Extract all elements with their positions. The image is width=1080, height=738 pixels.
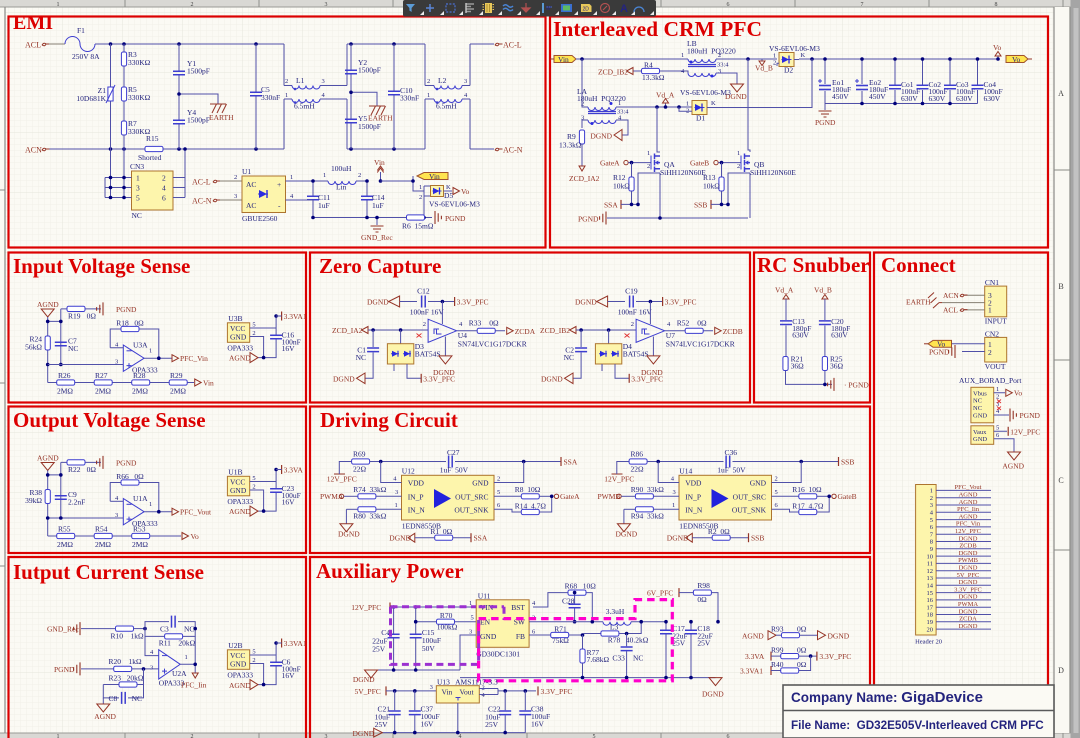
resistor R14 <box>494 496 552 514</box>
svg-text:R86: R86 <box>631 450 644 459</box>
svg-text:3: 3 <box>395 489 398 496</box>
svg-text:C12: C12 <box>417 287 430 296</box>
toolbar icon sheet symbol <box>581 4 592 12</box>
junction <box>630 203 634 207</box>
wire to earth <box>179 94 218 104</box>
section border Interleaved CRM PFC <box>550 17 1048 248</box>
svg-text:330KΩ: 330KΩ <box>128 58 151 67</box>
svg-text:5: 5 <box>471 615 474 622</box>
svg-text:6: 6 <box>727 734 730 738</box>
svg-text:0Ω: 0Ω <box>134 319 144 328</box>
svg-text:1uF 50V: 1uF 50V <box>717 466 746 475</box>
port PWMA <box>320 492 358 501</box>
wire to flag <box>381 176 425 196</box>
capacitor C36 <box>717 448 746 475</box>
svg-text:Vd_A: Vd_A <box>656 91 675 100</box>
svg-text:AC-N: AC-N <box>503 146 523 155</box>
power 3.3VA <box>276 465 303 475</box>
port PFC_Vout <box>172 508 212 517</box>
svg-text:5: 5 <box>252 649 255 656</box>
power 6V_PFC <box>647 588 693 598</box>
resistor R25 <box>822 355 843 385</box>
ground PGND <box>435 211 466 224</box>
svg-text:18: 18 <box>927 612 934 619</box>
capacitor C11 <box>307 181 330 218</box>
svg-text:C28: C28 <box>562 597 575 606</box>
resistor R6 <box>402 215 434 231</box>
svg-text:Vin: Vin <box>203 379 214 388</box>
ground PGND caps <box>815 104 836 128</box>
port ZCDA <box>507 327 536 336</box>
svg-text:9: 9 <box>930 546 933 553</box>
svg-text:OPA333: OPA333 <box>227 497 253 506</box>
capacitor Co4 <box>972 59 1003 104</box>
svg-text:R20 1kΩ: R20 1kΩ <box>109 657 143 666</box>
svg-text:ZCDA: ZCDA <box>515 327 536 336</box>
svg-text:L3: L3 <box>610 623 619 632</box>
svg-text:50V: 50V <box>422 644 436 653</box>
connector CN3 <box>130 162 173 220</box>
svg-text:0Ω: 0Ω <box>697 318 707 327</box>
svg-text:R98: R98 <box>697 581 710 590</box>
capacitor Co3 <box>944 59 975 104</box>
junction <box>109 176 113 180</box>
svg-text:GBUE2560: GBUE2560 <box>242 214 278 223</box>
svg-text:2: 2 <box>988 348 992 357</box>
svg-text:DGND: DGND <box>338 530 360 539</box>
toolbar icon arc <box>634 7 644 12</box>
svg-text:3.3V_PFC: 3.3V_PFC <box>665 298 697 307</box>
svg-text:GND_Rec: GND_Rec <box>361 233 393 242</box>
magenta dashed highlight pink <box>479 600 673 681</box>
capacitor C17 <box>660 622 688 678</box>
svg-text:10: 10 <box>927 553 934 560</box>
wires CN3 left <box>105 149 132 199</box>
svg-text:2.2nF: 2.2nF <box>68 498 85 507</box>
svg-text:C: C <box>1058 476 1063 485</box>
svg-text:NC: NC <box>68 344 78 353</box>
wire <box>444 190 453 192</box>
resistor R70 <box>416 611 477 632</box>
svg-text:630V: 630V <box>831 330 848 339</box>
svg-text:R52: R52 <box>677 318 690 327</box>
mosfet QB <box>724 150 796 177</box>
svg-text:PWMA: PWMA <box>958 601 979 608</box>
svg-text:6.5mH: 6.5mH <box>294 102 315 111</box>
svg-text:C3: C3 <box>160 625 169 634</box>
svg-text:1: 1 <box>136 174 140 183</box>
port ZCD_IB2 <box>540 326 636 335</box>
svg-text:1: 1 <box>149 348 152 355</box>
svg-text:25V: 25V <box>375 720 389 729</box>
svg-text:K: K <box>711 100 716 107</box>
junction <box>860 57 864 61</box>
svg-text:U2B: U2B <box>228 641 242 650</box>
divider row R55 R54 R53 <box>48 525 181 550</box>
capacitor C3 <box>145 616 195 634</box>
svg-text:630V: 630V <box>901 94 918 103</box>
wire <box>772 462 802 483</box>
power Vo arrow <box>993 43 1001 59</box>
junction <box>921 57 925 61</box>
power Vd_A <box>775 286 794 321</box>
svg-text:Vo: Vo <box>1012 55 1020 64</box>
left sheet frame <box>0 7 5 733</box>
svg-text:GND: GND <box>230 333 247 342</box>
wire AGND branch <box>48 309 61 365</box>
resistor R17 <box>772 496 830 514</box>
ground DGND aux right <box>702 678 724 699</box>
power 3.3VA1 <box>276 312 307 322</box>
ground AGND sideways <box>229 353 258 363</box>
capacitor Y2 <box>345 44 381 92</box>
capacitor C23 <box>264 470 301 512</box>
svg-text:R27: R27 <box>95 371 108 380</box>
capacitor C9 <box>55 490 85 507</box>
svg-text:DGND: DGND <box>353 675 375 684</box>
svg-text:ACN: ACN <box>25 146 42 155</box>
svg-text:PFC_Vin: PFC_Vin <box>956 521 981 528</box>
svg-text:1: 1 <box>185 654 188 661</box>
svg-text:Header 20: Header 20 <box>915 639 942 646</box>
svg-text:DGND: DGND <box>959 579 978 586</box>
diode D5 <box>419 184 480 209</box>
svg-text:5: 5 <box>136 194 140 203</box>
svg-text:2: 2 <box>191 2 194 8</box>
svg-text:1: 1 <box>395 502 398 509</box>
ground AGND <box>94 698 116 721</box>
port GateB <box>832 492 857 501</box>
svg-text:AGND: AGND <box>742 631 764 640</box>
port ACN <box>25 146 50 155</box>
svg-text:Interleaved CRM PFC: Interleaved CRM PFC <box>553 17 762 41</box>
svg-text:25V: 25V <box>485 720 499 729</box>
svg-text:AGND: AGND <box>94 712 116 721</box>
svg-text:1: 1 <box>773 53 776 60</box>
wire plus input row <box>48 517 124 519</box>
junction <box>581 633 585 637</box>
svg-text:16V: 16V <box>421 720 435 729</box>
svg-text:3.3VA1: 3.3VA1 <box>284 312 307 321</box>
resistor R94 <box>624 502 679 521</box>
svg-text:Driving Circuit: Driving Circuit <box>320 408 458 432</box>
svg-text:OUT_SRC: OUT_SRC <box>733 492 766 501</box>
svg-text:OUT_SNK: OUT_SNK <box>732 505 767 514</box>
svg-text:DGND: DGND <box>575 298 597 307</box>
port PWMB <box>598 492 636 501</box>
svg-text:2: 2 <box>581 101 584 108</box>
main rail <box>576 58 998 60</box>
junction <box>827 495 831 499</box>
capacitor Eo2 <box>855 59 888 104</box>
port GateA <box>554 492 580 501</box>
svg-text:2: 2 <box>234 174 237 181</box>
resistor R10 <box>111 626 146 641</box>
svg-text:SN74LVC1G17DCKR: SN74LVC1G17DCKR <box>666 340 735 349</box>
svg-text:19: 19 <box>927 619 934 626</box>
capacitor C18 <box>685 622 713 678</box>
capacitor C33 <box>612 634 643 678</box>
svg-text:3: 3 <box>322 78 325 85</box>
ground DGND u4 <box>433 337 455 377</box>
power 5V_PFC <box>355 686 437 695</box>
resistor R80 <box>346 502 401 521</box>
power 12V_PFC aux <box>1008 427 1040 437</box>
junction <box>860 102 864 106</box>
svg-text:R68 10Ω: R68 10Ω <box>565 581 597 590</box>
svg-text:450V: 450V <box>869 92 886 101</box>
svg-text:Output Voltage Sense: Output Voltage Sense <box>13 408 206 432</box>
svg-text:ZCDA: ZCDA <box>959 616 977 623</box>
junction <box>550 495 554 499</box>
svg-text:2: 2 <box>191 734 194 738</box>
section border Output Voltage Sense <box>9 407 307 554</box>
title block <box>783 685 1054 738</box>
svg-text:AGND: AGND <box>1002 462 1024 471</box>
wire <box>381 462 402 483</box>
svg-text:Shorted: Shorted <box>138 153 162 162</box>
svg-text:NC: NC <box>564 353 574 362</box>
svg-text:DGND: DGND <box>367 298 389 307</box>
svg-text:100nF 16V: 100nF 16V <box>618 308 653 317</box>
svg-text:2: 2 <box>285 78 288 85</box>
svg-text:GND: GND <box>230 660 247 669</box>
ground DGND c19 <box>575 296 625 307</box>
svg-text:Zero Capture: Zero Capture <box>319 254 441 278</box>
svg-text:10D681K: 10D681K <box>76 94 106 103</box>
resistor R24 <box>25 335 50 352</box>
svg-text:R74 33kΩ: R74 33kΩ <box>353 485 387 494</box>
svg-text:R4: R4 <box>644 61 653 70</box>
svg-text:2: 2 <box>773 60 776 67</box>
ground DGND driver <box>616 509 638 538</box>
resistor R52 <box>665 318 713 333</box>
svg-text:10kΩ: 10kΩ <box>613 182 630 191</box>
op-amp U3A <box>48 341 158 375</box>
svg-text:7.68kΩ: 7.68kΩ <box>587 655 610 664</box>
wire LA pin4 to DGND <box>616 120 628 135</box>
svg-text:R69: R69 <box>353 450 366 459</box>
ground DGND driver <box>338 509 360 538</box>
junction <box>689 620 693 624</box>
wire QA source <box>638 173 660 218</box>
bridge rectifier U1 <box>242 167 286 223</box>
svg-text:VDD: VDD <box>685 479 702 488</box>
svg-text:AGND: AGND <box>959 513 978 520</box>
svg-text:17: 17 <box>927 604 934 611</box>
junction <box>809 654 813 658</box>
svg-text:C36: C36 <box>725 448 738 457</box>
svg-text:12V_PFC: 12V_PFC <box>351 603 381 612</box>
ground PGND rail <box>578 212 748 225</box>
svg-text:U2A: U2A <box>172 669 187 678</box>
svg-text:R2 0Ω: R2 0Ω <box>708 527 730 536</box>
svg-text:ZCDB: ZCDB <box>723 327 743 336</box>
svg-text:R80 33kΩ: R80 33kΩ <box>353 512 387 521</box>
svg-text:8: 8 <box>995 2 998 8</box>
svg-text:PGND: PGND <box>54 665 75 674</box>
svg-text:AC: AC <box>246 201 256 210</box>
diode D3 BAT54S <box>387 330 440 378</box>
svg-text:C19: C19 <box>625 287 638 296</box>
junction <box>59 320 63 324</box>
toolbar icon waves <box>503 5 513 11</box>
svg-text:12: 12 <box>927 568 934 575</box>
diode D2 <box>769 44 820 75</box>
wire U13 gnd pin <box>457 703 459 733</box>
svg-text:15: 15 <box>927 590 934 597</box>
svg-text:ZCD_IB2: ZCD_IB2 <box>598 68 628 77</box>
svg-text:3: 3 <box>464 78 467 85</box>
capacitor C12 <box>410 287 455 317</box>
svg-text:R8 10Ω: R8 10Ω <box>515 485 541 494</box>
svg-text:0Ω: 0Ω <box>797 646 807 655</box>
svg-text:10kΩ: 10kΩ <box>703 182 720 191</box>
toolbar icon crosshair <box>426 4 434 12</box>
svg-text:FB: FB <box>516 632 525 641</box>
junction <box>46 363 50 367</box>
svg-text:2MΩ: 2MΩ <box>95 387 111 396</box>
power 3.3V_PFC u13 <box>538 686 572 695</box>
port ZCDB <box>715 327 743 336</box>
port AC-L to bridge <box>192 174 242 187</box>
diode D4 BAT54S <box>595 330 648 378</box>
svg-text:3: 3 <box>115 359 118 366</box>
svg-text:100uH: 100uH <box>331 164 352 173</box>
power 3.3VA1 <box>276 639 307 649</box>
svg-text:SSA: SSA <box>474 534 488 543</box>
ground GND_Rec <box>361 218 393 243</box>
wire <box>602 364 629 378</box>
power 3.3V_PFC d4 <box>629 374 663 384</box>
svg-text:3: 3 <box>673 489 676 496</box>
svg-text:DGND: DGND <box>641 368 663 377</box>
svg-text:2: 2 <box>423 321 426 328</box>
port DGND link <box>818 631 850 641</box>
svg-text:C33: C33 <box>612 653 625 662</box>
wire U1 pin1 <box>286 174 314 181</box>
transformer LB <box>681 39 736 78</box>
wire <box>952 344 985 352</box>
header JP1 <box>915 484 991 646</box>
wire <box>994 393 1014 452</box>
top ruler <box>0 0 1080 8</box>
svg-text:IN_P: IN_P <box>408 492 424 501</box>
junction <box>441 300 445 304</box>
svg-text:5: 5 <box>996 425 999 432</box>
divider row R26 R27 R28 R29 <box>48 371 194 396</box>
power 12V_PFC U12 <box>327 462 357 484</box>
svg-text:Auxiliary Power: Auxiliary Power <box>316 559 464 583</box>
svg-text:11: 11 <box>927 561 933 568</box>
svg-text:Lin: Lin <box>336 183 347 192</box>
svg-text:R94 33kΩ: R94 33kΩ <box>631 512 665 521</box>
junction <box>655 105 659 109</box>
junction dots top rail <box>109 42 113 46</box>
svg-text:ZCDB: ZCDB <box>959 543 977 550</box>
svg-text:GateA: GateA <box>560 492 580 501</box>
power 12V_PFC <box>351 603 476 613</box>
ground DGND c12 <box>367 296 417 307</box>
svg-text:+: + <box>277 180 281 189</box>
svg-text:DGND: DGND <box>541 375 563 384</box>
port PFC_Vin <box>172 354 208 363</box>
svg-text:SSA: SSA <box>604 201 618 210</box>
junction <box>392 668 396 672</box>
junction <box>392 605 396 609</box>
svg-text:1: 1 <box>427 92 430 99</box>
svg-text:PGND: PGND <box>116 459 137 468</box>
capacitor Y5 <box>345 92 381 149</box>
capacitor C20 <box>819 317 850 356</box>
junction <box>720 203 724 207</box>
port Vo aux <box>1006 389 1023 398</box>
section border RC Snubber <box>754 253 870 403</box>
wire LA pin3 to R9 <box>582 120 588 128</box>
regulator U13 <box>430 677 536 703</box>
junction <box>579 328 583 332</box>
svg-text:U13 AMS1117-3.3: U13 AMS1117-3.3 <box>437 677 498 686</box>
op-amp power U1B <box>227 467 276 511</box>
svg-text:2: 2 <box>631 321 634 328</box>
resistor R8 <box>494 485 554 499</box>
svg-text:DGND: DGND <box>333 375 355 384</box>
port PFC_Iin <box>181 673 207 690</box>
svg-text:PGND: PGND <box>578 215 599 224</box>
feedback resistor R66 <box>110 472 172 512</box>
svg-text:OUT_SRC: OUT_SRC <box>455 492 488 501</box>
junction <box>664 620 668 624</box>
section border Auxiliary Power <box>310 557 870 738</box>
svg-text:PFC_Iin: PFC_Iin <box>181 681 207 690</box>
junction <box>573 591 577 595</box>
port ACL <box>25 41 65 50</box>
svg-text:2: 2 <box>252 484 255 491</box>
svg-text:2: 2 <box>427 78 430 85</box>
wire U11 gnd <box>460 635 476 670</box>
svg-text:100nF 16V: 100nF 16V <box>410 308 445 317</box>
connector AUX_BORAD_Port <box>959 376 1022 452</box>
resistor R68 <box>533 581 596 621</box>
svg-text:25V: 25V <box>697 639 711 648</box>
svg-text:5: 5 <box>497 489 500 496</box>
svg-text:U3A: U3A <box>133 341 148 350</box>
ground PGND <box>97 456 137 469</box>
svg-text:13.3kΩ: 13.3kΩ <box>642 73 665 82</box>
power 3.3V_PFC <box>455 297 489 307</box>
svg-text:R6 15mΩ: R6 15mΩ <box>402 222 434 231</box>
resistor R4 <box>633 61 688 83</box>
svg-text:3.3V_PFC: 3.3V_PFC <box>541 687 573 696</box>
svg-text:DGND: DGND <box>959 594 978 601</box>
wire <box>250 328 276 358</box>
resistor R98 <box>693 581 718 622</box>
port GateB <box>690 159 724 168</box>
svg-text:C27: C27 <box>447 448 460 457</box>
svg-text:2: 2 <box>718 52 721 59</box>
junction <box>142 667 146 671</box>
svg-text:4: 4 <box>162 184 166 193</box>
port Vo <box>453 187 469 196</box>
svg-text:VS-6EVL06-M3: VS-6EVL06-M3 <box>769 44 820 53</box>
wires CN3 right <box>173 147 187 197</box>
svg-text:Vin: Vin <box>429 172 440 181</box>
svg-text:2D: 2D <box>583 7 590 13</box>
wire <box>415 537 435 539</box>
junction <box>311 179 315 183</box>
wire to earth 2 <box>351 92 377 106</box>
port SSB <box>694 200 728 210</box>
